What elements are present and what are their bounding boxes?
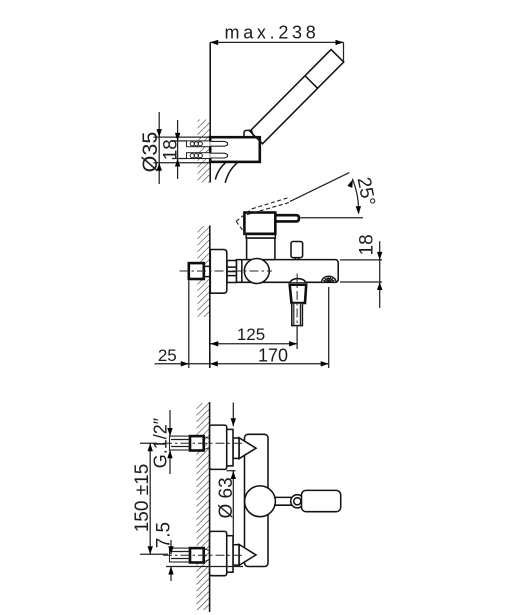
wall line (middle view) <box>209 225 211 368</box>
S-union square <box>189 263 204 279</box>
mixer body (side) <box>236 260 338 283</box>
dimension 18 (body height) <box>340 234 382 308</box>
hose arc inner <box>225 163 237 183</box>
raised lever (dashed) <box>236 198 291 235</box>
dimension 170 <box>155 345 329 366</box>
dimension D63 (rosette) <box>216 403 237 544</box>
collar at y=555.3 <box>227 536 233 573</box>
mounting screw at y=143.8 <box>187 141 228 147</box>
svg-text:Ø35: Ø35 <box>138 132 162 173</box>
taper behind wall at y=443.3 <box>204 436 210 449</box>
lever rod (front) <box>274 496 292 498</box>
dimension max.238 <box>210 23 343 62</box>
centerline at y=555.3 <box>163 554 243 556</box>
mixer body (front) <box>245 434 269 566</box>
collar at y=443.3 <box>227 429 233 466</box>
wall hatch (top view) <box>198 120 211 183</box>
svg-text:25: 25 <box>158 346 177 365</box>
valve circle (front) <box>245 486 276 517</box>
inlet cone at y=448.2 <box>239 438 256 459</box>
lever bar (front) <box>302 490 341 511</box>
angle rays 25deg <box>290 173 349 202</box>
taper behind wall at y=555.3 <box>204 548 210 561</box>
wall flange at y=443.3 <box>210 425 227 469</box>
dimension G.1/2 <box>151 410 173 474</box>
dimension 125 <box>210 325 297 347</box>
svg-text:max.238: max.238 <box>225 23 320 43</box>
extension line aerator <box>328 287 330 368</box>
inlet neck at y=448.2 <box>233 438 239 458</box>
threaded pipe at y=443.3 <box>170 436 191 450</box>
wall bracket <box>210 137 260 162</box>
threaded pipe at y=555.3 <box>170 548 191 562</box>
wall hatch (middle view) <box>198 226 210 317</box>
svg-text:18: 18 <box>357 234 378 255</box>
outlet tube <box>292 303 303 326</box>
union nut at y=555.3 <box>190 548 204 562</box>
wall hatch (front view) <box>197 403 210 610</box>
cartridge <box>247 238 275 260</box>
svg-text:7.5: 7.5 <box>154 522 175 548</box>
diverter cup <box>290 285 307 303</box>
dimension D35 (bracket flange) <box>138 112 210 184</box>
body inner line <box>241 260 243 283</box>
svg-text:Ø 63: Ø 63 <box>216 477 237 518</box>
lever ball joint <box>291 495 304 508</box>
svg-text:18: 18 <box>161 139 182 160</box>
union nut at y=443.3 <box>190 436 204 450</box>
svg-text:125: 125 <box>237 325 265 344</box>
dimension 150 pm 15 <box>132 443 168 554</box>
inlet cone at y=554.9 <box>239 544 256 565</box>
mounting screw at y=155.6 <box>187 153 228 159</box>
aerator dome (hatched) <box>322 276 337 282</box>
wall line (front view) <box>209 402 211 612</box>
union nut (ribbed) <box>227 261 236 283</box>
dimension 7.5 <box>154 522 244 581</box>
diverter knob <box>291 242 303 258</box>
wall flange at y=555.3 <box>210 531 227 575</box>
lever (side) <box>275 215 299 221</box>
handshower wand <box>250 49 344 143</box>
handle grip (side) <box>244 213 275 234</box>
inlet neck at y=554.9 <box>233 545 239 565</box>
extension line union edge <box>188 281 190 369</box>
svg-text:150 ±15: 150 ±15 <box>132 464 153 533</box>
outlet centerline <box>296 274 298 342</box>
centerline (middle view) <box>180 270 273 272</box>
svg-text:170: 170 <box>258 345 288 365</box>
hose arc outer <box>215 163 225 180</box>
angle arc 25deg <box>352 179 358 214</box>
centerline at y=443.3 <box>163 442 243 444</box>
spout dome <box>290 279 305 283</box>
wand separation line <box>305 76 318 89</box>
handle skirt <box>246 234 275 238</box>
wall line (top view) <box>209 42 211 182</box>
union step behind wall <box>204 266 210 276</box>
dimension 18 (screw spacing) <box>161 120 187 179</box>
extension line outlet <box>296 327 298 349</box>
valve circle <box>244 259 269 284</box>
wand pivot tab <box>244 130 254 137</box>
wall flange rosette (side) <box>210 250 227 294</box>
